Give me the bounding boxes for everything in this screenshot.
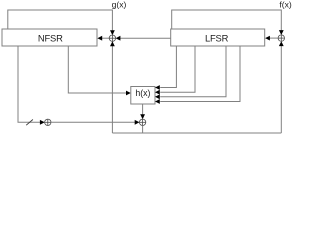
XOR1 (g xor) [109, 35, 115, 41]
wire LFSR feedback (box top, up, right to f(x) corner, down into XOR2) [172, 10, 282, 31]
arrow into sum xor left [40, 120, 45, 125]
XOR2 (f xor) [278, 35, 284, 41]
wire output feedback bottom line [112, 132, 281, 134]
arrow into h(x) right (tap 2) [155, 90, 160, 95]
arrow into output xor left [135, 120, 140, 125]
wire LFSR tap 4 to h(x) [160, 46, 240, 102]
wire h(x) output down to output xor [142, 104, 144, 115]
wire LFSR tap 2 to h(x) [160, 46, 195, 92]
bus slash mark [26, 120, 33, 126]
svg-text:f(x): f(x) [279, 0, 292, 10]
box NFSR [2, 29, 97, 46]
svg-text:g(x): g(x) [112, 0, 127, 10]
XOR4 (output xor) [139, 119, 145, 125]
arrow into XOR2 top [279, 30, 284, 35]
arrow into h(x) right (tap 4) [155, 99, 160, 104]
box LFSR [171, 29, 265, 46]
svg-text:LFSR: LFSR [205, 32, 229, 43]
arrow into h(x) right (tap 3) [155, 94, 160, 99]
wire XOR2 output into LFSR [270, 37, 279, 39]
wire NFSR feedback (box top, up, right to g(x) corner, down into XOR1) [8, 10, 113, 31]
wire LFSR output to XOR1 (s0 into NFSR input xor) [120, 37, 171, 39]
wire output xor down to feedback line [142, 126, 144, 134]
wire NFSR tap (7 bits) down-left to sum xor [18, 46, 40, 122]
box h(x) [131, 87, 155, 105]
wire NFSR tap to h(x) left input [68, 46, 126, 93]
arrow into XOR2 bottom [279, 41, 284, 46]
arrow into XOR1 bottom [110, 41, 115, 46]
wire feedback up into XOR2 bottom [280, 46, 282, 133]
arrow into XOR1 top [110, 30, 115, 35]
wire XOR1 output into NFSR [102, 37, 110, 39]
svg-text:NFSR: NFSR [38, 32, 63, 43]
arrow into LFSR right edge [265, 36, 270, 41]
arrow into h(x) left [126, 91, 131, 96]
arrow into XOR1 right [116, 36, 121, 41]
arrow into NFSR right edge [97, 36, 102, 41]
wire feedback up into XOR1 bottom [111, 46, 113, 133]
arrow into h(x) right (tap 1) [155, 85, 160, 90]
wire sum xor to output xor [51, 121, 135, 123]
wire LFSR tap 1 to h(x) [160, 46, 176, 88]
svg-text:h(x): h(x) [135, 88, 150, 98]
wire LFSR tap 3 to h(x) [160, 46, 226, 97]
XOR3 (sum of NFSR taps) [45, 119, 51, 125]
arrow into output xor top [140, 114, 145, 119]
